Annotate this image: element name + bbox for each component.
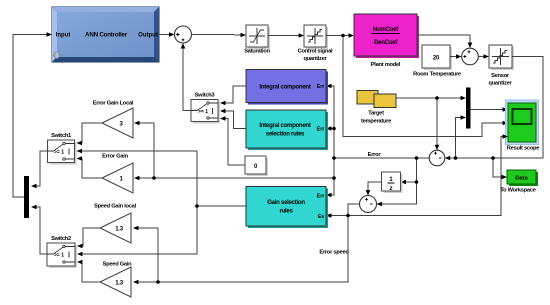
wire: sum S2 to Sensor quantizer <box>478 56 484 58</box>
svg-text:Target: Target <box>368 111 384 117</box>
junction on quantizer output <box>341 34 345 38</box>
wire: Plant model to sum S2 top <box>417 35 470 44</box>
svg-text:selection rules: selection rules <box>266 132 305 138</box>
block Integral component selection rules <box>246 110 328 150</box>
svg-text:Error Gain: Error Gain <box>102 154 128 160</box>
wire: Gain selection rules output to Switch1 and Switch2 middle inputs <box>80 151 247 254</box>
svg-text:Switch1: Switch1 <box>51 133 71 139</box>
wire: Integral component selection rules output to Switch3 input 2 <box>223 111 246 129</box>
svg-text:DenCoef: DenCoef <box>374 40 398 46</box>
svg-text:Switch3: Switch3 <box>195 93 215 99</box>
block Integral component <box>246 70 328 105</box>
wire: constant 0 output to Switch3 input 3 <box>223 119 245 166</box>
wire: Switch3 output up into sum S1 bottom <box>183 47 191 111</box>
scope Result scope <box>506 100 540 152</box>
svg-text:Data: Data <box>515 176 528 182</box>
sum S1 <box>175 26 192 43</box>
wire: unit delay output to sum S4 top <box>368 182 382 192</box>
svg-text:Es: Es <box>318 214 324 220</box>
wire: Switch1 output to mux M2 input 1 <box>34 151 48 186</box>
wire: Error junction down to unit delay and sum S4 right <box>380 158 417 204</box>
wire: sum S3 output Error line to the left, junction column x=334 <box>138 86 429 195</box>
wire: Integral component output to Switch3 input 1 <box>223 86 246 103</box>
svg-text:Gain selection: Gain selection <box>267 200 305 206</box>
block Switch2 <box>47 236 77 268</box>
svg-text:ANN Controller: ANN Controller <box>85 32 128 39</box>
svg-text:1.3: 1.3 <box>115 281 124 287</box>
svg-text:>= 1: >= 1 <box>54 253 64 259</box>
svg-text:z: z <box>389 185 392 192</box>
block Room Temperature constant 20 <box>413 45 461 78</box>
wire: Switch2 output to mux M2 input 2 <box>34 207 47 254</box>
svg-text:rules: rules <box>279 209 293 215</box>
block unit delay 1/z <box>382 172 403 193</box>
svg-text:NumCoef: NumCoef <box>373 27 399 33</box>
svg-text:Speed Gain: Speed Gain <box>103 262 133 268</box>
svg-text:Output: Output <box>138 33 158 39</box>
block Control signal quantizer <box>298 25 333 62</box>
svg-text:Room Temperature: Room Temperature <box>413 72 461 78</box>
gain G13 value 1.3 <box>100 267 131 297</box>
wire: Sensor quantizer right, down, to sum S3 with junctions to Data and mux M1 <box>449 57 543 178</box>
svg-text:>= 1: >= 1 <box>198 109 208 115</box>
wire: sum S4 output to Es junction, scope input 3, and error-speed line <box>136 137 504 283</box>
mux M2 <box>24 176 29 218</box>
svg-text:Error Gain Local: Error Gain Local <box>93 101 134 107</box>
wire: Speed Gain output to Switch2 input 3 <box>79 262 100 282</box>
block Sensor quantizer <box>488 45 514 87</box>
block Data (To Workspace) <box>500 170 538 194</box>
svg-text:Sensor: Sensor <box>491 73 510 79</box>
wire: gain 1 output to Switch1 input 3 <box>79 159 102 179</box>
sum S3 (target - sensed) <box>429 150 445 166</box>
block Switch3 <box>191 93 220 124</box>
wire: quantizer to Plant model with branch to scope input 2 <box>326 36 503 137</box>
svg-text:Integral component: Integral component <box>259 85 310 91</box>
block Saturation <box>244 25 270 55</box>
gain G13L value 1.3 <box>100 213 131 243</box>
subsystem U1 ANN Controller <box>52 7 159 62</box>
sum S2 <box>462 48 479 65</box>
wire: mux M1 output to scope input 1 <box>471 109 504 111</box>
svg-text:Saturation: Saturation <box>244 49 270 55</box>
svg-text:quantizer: quantizer <box>488 81 512 87</box>
svg-text:Input: Input <box>56 33 71 39</box>
svg-text:Integral component: Integral component <box>259 123 310 129</box>
wire: feedback from mux2 output to ANN input <box>13 35 47 198</box>
svg-text:1: 1 <box>389 176 393 183</box>
svg-text:To Workspace: To Workspace <box>500 188 535 194</box>
block Switch1 <box>48 133 77 165</box>
svg-text:temperature: temperature <box>361 119 391 125</box>
wire: sum S1 to Saturation <box>192 34 243 36</box>
svg-text:quantizer: quantizer <box>303 56 327 62</box>
svg-text:1.3: 1.3 <box>115 227 124 233</box>
wire: ANN Output to sum S1 <box>159 34 170 36</box>
block Plant model <box>354 14 419 68</box>
svg-text:Control signal: Control signal <box>298 49 333 55</box>
svg-text:Result scope: Result scope <box>507 146 539 152</box>
block Gain selection rules <box>246 187 328 229</box>
svg-text:Plant model: Plant model <box>371 62 401 68</box>
wire: Speed Gain local output to Switch2 input 1 <box>79 228 100 246</box>
svg-text:Err: Err <box>317 127 325 133</box>
gain G3 value 3 <box>102 108 133 138</box>
svg-text:>= 1: >= 1 <box>54 150 64 156</box>
wire: gain 3 output to Switch1 input 1 <box>79 123 102 143</box>
svg-text:20: 20 <box>433 56 440 62</box>
wire: Room Temperature to sum S2 <box>450 56 457 58</box>
wire: Target temperature to mux M1 input1, branch down to sum S3 top <box>396 98 462 146</box>
block constant 0 <box>245 156 268 176</box>
gain G1 value 1 <box>102 163 133 193</box>
block Target temperature (signal builder) <box>357 91 396 125</box>
svg-text:Speed Gain local: Speed Gain local <box>94 204 137 210</box>
svg-text:Switch2: Switch2 <box>51 236 71 242</box>
sum S4 (error speed) <box>360 196 377 213</box>
svg-text:Err: Err <box>317 194 325 200</box>
wire arrowhead into ANN Input <box>47 32 53 37</box>
svg-text:Error: Error <box>368 152 382 158</box>
svg-text:Err: Err <box>317 84 325 90</box>
mux M1 <box>466 88 471 129</box>
svg-text:Error speed: Error speed <box>319 250 349 256</box>
wire: Saturation to Control signal quantizer <box>268 35 299 37</box>
